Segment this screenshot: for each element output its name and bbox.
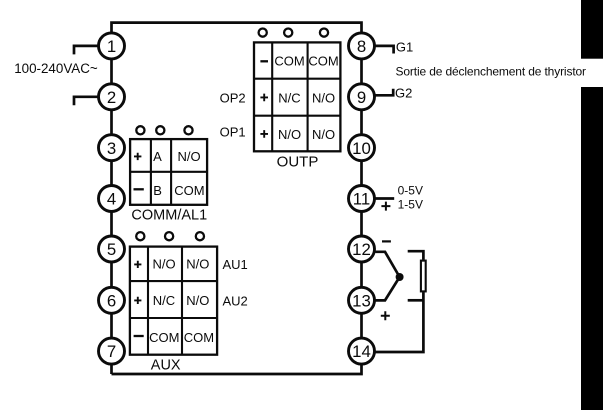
wire sensor bottom contact xyxy=(408,299,424,302)
svg-text:5: 5 xyxy=(107,240,116,259)
terminal 12 xyxy=(349,236,375,262)
svg-text:AUX: AUX xyxy=(151,358,181,374)
wire left terminal column xyxy=(110,46,113,374)
wire terminal 12 to junction xyxy=(375,252,399,277)
screw terminals above AUX xyxy=(136,232,204,240)
screw terminals above OUTP xyxy=(259,28,329,36)
svg-text:Sortie de déclenchement de thy: Sortie de déclenchement de thyristor xyxy=(396,64,587,78)
polarity minus (terminal 12) xyxy=(382,240,391,242)
svg-text:AU1: AU1 xyxy=(223,257,248,272)
svg-text:N/O: N/O xyxy=(278,127,301,142)
terminal block AUX xyxy=(130,247,217,355)
svg-text:N/C: N/C xyxy=(278,90,300,105)
svg-text:COM: COM xyxy=(274,54,304,69)
pin plus AUX row1 xyxy=(134,261,141,268)
svg-text:3: 3 xyxy=(107,139,116,158)
terminal 1 xyxy=(99,33,125,59)
terminal 7 xyxy=(99,338,125,364)
svg-text:COM: COM xyxy=(308,54,338,69)
terminal 4 xyxy=(99,186,125,212)
svg-text:N/O: N/O xyxy=(152,257,175,272)
svg-text:N/O: N/O xyxy=(186,293,209,308)
svg-text:G1: G1 xyxy=(396,40,413,55)
svg-text:2: 2 xyxy=(107,88,116,107)
terminal 11 xyxy=(349,186,375,212)
svg-text:4: 4 xyxy=(107,190,116,209)
svg-text:A: A xyxy=(153,149,162,164)
wire AC line hook L1 xyxy=(74,46,99,55)
svg-text:N/O: N/O xyxy=(178,149,201,164)
pin plus OUTP row3 xyxy=(260,130,268,138)
svg-text:9: 9 xyxy=(357,88,366,107)
svg-text:B: B xyxy=(153,183,162,198)
node sensor junction xyxy=(396,273,404,281)
svg-text:OP1: OP1 xyxy=(220,125,246,140)
wire sensor top contact xyxy=(408,251,424,259)
polarity plus (terminal 13) xyxy=(381,311,390,320)
terminal 5 xyxy=(99,236,125,262)
pin plus OUTP row2 xyxy=(260,94,268,102)
wire resistor to terminal 14 xyxy=(375,292,423,352)
svg-text:N/O: N/O xyxy=(186,257,209,272)
pin plus COMM/AL1 row1 xyxy=(134,153,141,160)
pin plus AUX row2 xyxy=(134,297,141,304)
pin minus COMM/AL1 row2 xyxy=(134,188,144,190)
pin minus OUTP row1 xyxy=(260,60,268,62)
svg-text:0-5V: 0-5V xyxy=(398,184,423,198)
svg-text:10: 10 xyxy=(352,139,371,158)
wire terminal 13 to junction xyxy=(375,277,399,300)
svg-text:COM: COM xyxy=(149,330,179,345)
svg-text:7: 7 xyxy=(107,342,116,361)
svg-text:AU2: AU2 xyxy=(223,293,248,308)
svg-text:1-5V: 1-5V xyxy=(398,198,423,212)
svg-text:N/O: N/O xyxy=(312,127,335,142)
svg-text:OP2: OP2 xyxy=(220,91,246,106)
svg-text:12: 12 xyxy=(352,240,371,259)
wire AC line hook L2 xyxy=(74,97,99,106)
svg-text:8: 8 xyxy=(357,37,366,56)
svg-text:COM: COM xyxy=(184,330,214,345)
svg-text:100-240VAC~: 100-240VAC~ xyxy=(14,61,98,76)
screw terminals above COMM/AL1 xyxy=(136,126,192,134)
svg-text:COM: COM xyxy=(174,183,204,198)
terminal block OUTP xyxy=(254,42,340,151)
terminal 2 xyxy=(99,84,125,110)
svg-text:1: 1 xyxy=(107,37,116,56)
polarity plus (terminal 11) xyxy=(381,202,390,211)
terminal 6 xyxy=(99,287,125,313)
wire analog input stub (terminal 11) xyxy=(375,197,394,200)
wire top bus xyxy=(112,23,362,46)
terminal block COMM/AL1 xyxy=(130,139,207,205)
wire right terminal column xyxy=(360,46,363,351)
svg-text:13: 13 xyxy=(352,291,371,310)
wire bottom bus xyxy=(112,351,362,374)
svg-text:G2: G2 xyxy=(395,86,412,101)
wire G2 stub xyxy=(375,89,393,96)
svg-text:6: 6 xyxy=(107,291,116,310)
terminal 9 xyxy=(349,84,375,110)
terminal 14 xyxy=(349,338,375,364)
terminal 13 xyxy=(349,287,375,313)
svg-text:N/C: N/C xyxy=(153,293,175,308)
svg-text:COMM/AL1: COMM/AL1 xyxy=(131,207,207,223)
wire G1 stub xyxy=(375,46,393,54)
resistor RTD sensor xyxy=(421,261,426,292)
terminal 10 xyxy=(349,135,375,161)
svg-text:N/O: N/O xyxy=(312,90,335,105)
terminal 8 xyxy=(349,33,375,59)
svg-text:14: 14 xyxy=(352,342,371,361)
terminal 3 xyxy=(99,135,125,161)
pin minus AUX row3 xyxy=(134,335,144,337)
svg-text:OUTP: OUTP xyxy=(277,154,319,171)
svg-text:11: 11 xyxy=(353,190,370,209)
